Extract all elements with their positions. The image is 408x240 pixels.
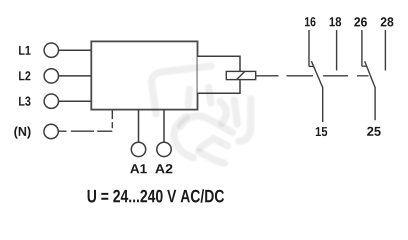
pin 26 lead (361, 30, 363, 66)
terminal L3 (44, 94, 58, 108)
terminal L2 (44, 69, 58, 83)
wire coil actuation dashed (256, 75, 369, 77)
wire A1 (138, 110, 140, 143)
terminal A1 (131, 142, 145, 156)
pin 16 seat tick (309, 65, 314, 67)
label A2 (155, 164, 172, 173)
label 25 (367, 127, 381, 136)
pin 26 seat tick (362, 65, 367, 67)
contact arm 15 (311, 61, 322, 122)
device box U1 (91, 41, 197, 109)
coil diagonal (237, 71, 245, 79)
label 18 (330, 17, 342, 26)
terminal L1 (44, 43, 58, 57)
relay coil K1 (226, 71, 255, 79)
label A1 (130, 164, 147, 173)
value label supply voltage (88, 189, 224, 202)
label L1 (19, 46, 31, 55)
pin 28 lead (384, 30, 386, 71)
relay bracket outline (198, 56, 241, 93)
label 16 (305, 17, 316, 26)
label (N) (14, 127, 30, 139)
watermark logo (0, 0, 1, 1)
wire L2 (59, 75, 92, 77)
label 15 (316, 127, 327, 136)
wire A2 (163, 110, 165, 143)
pin 16 lead (308, 30, 310, 66)
wire N dashed (58, 110, 112, 131)
label 28 (381, 17, 394, 26)
wire L1 (59, 49, 92, 51)
contact arm 25 (365, 61, 375, 120)
label 26 (354, 17, 367, 26)
wire L3 (59, 100, 92, 102)
pin 18 lead (336, 30, 338, 71)
terminal N (44, 124, 58, 138)
label L2 (19, 71, 30, 80)
label L3 (19, 97, 30, 106)
terminal A2 (157, 142, 171, 156)
